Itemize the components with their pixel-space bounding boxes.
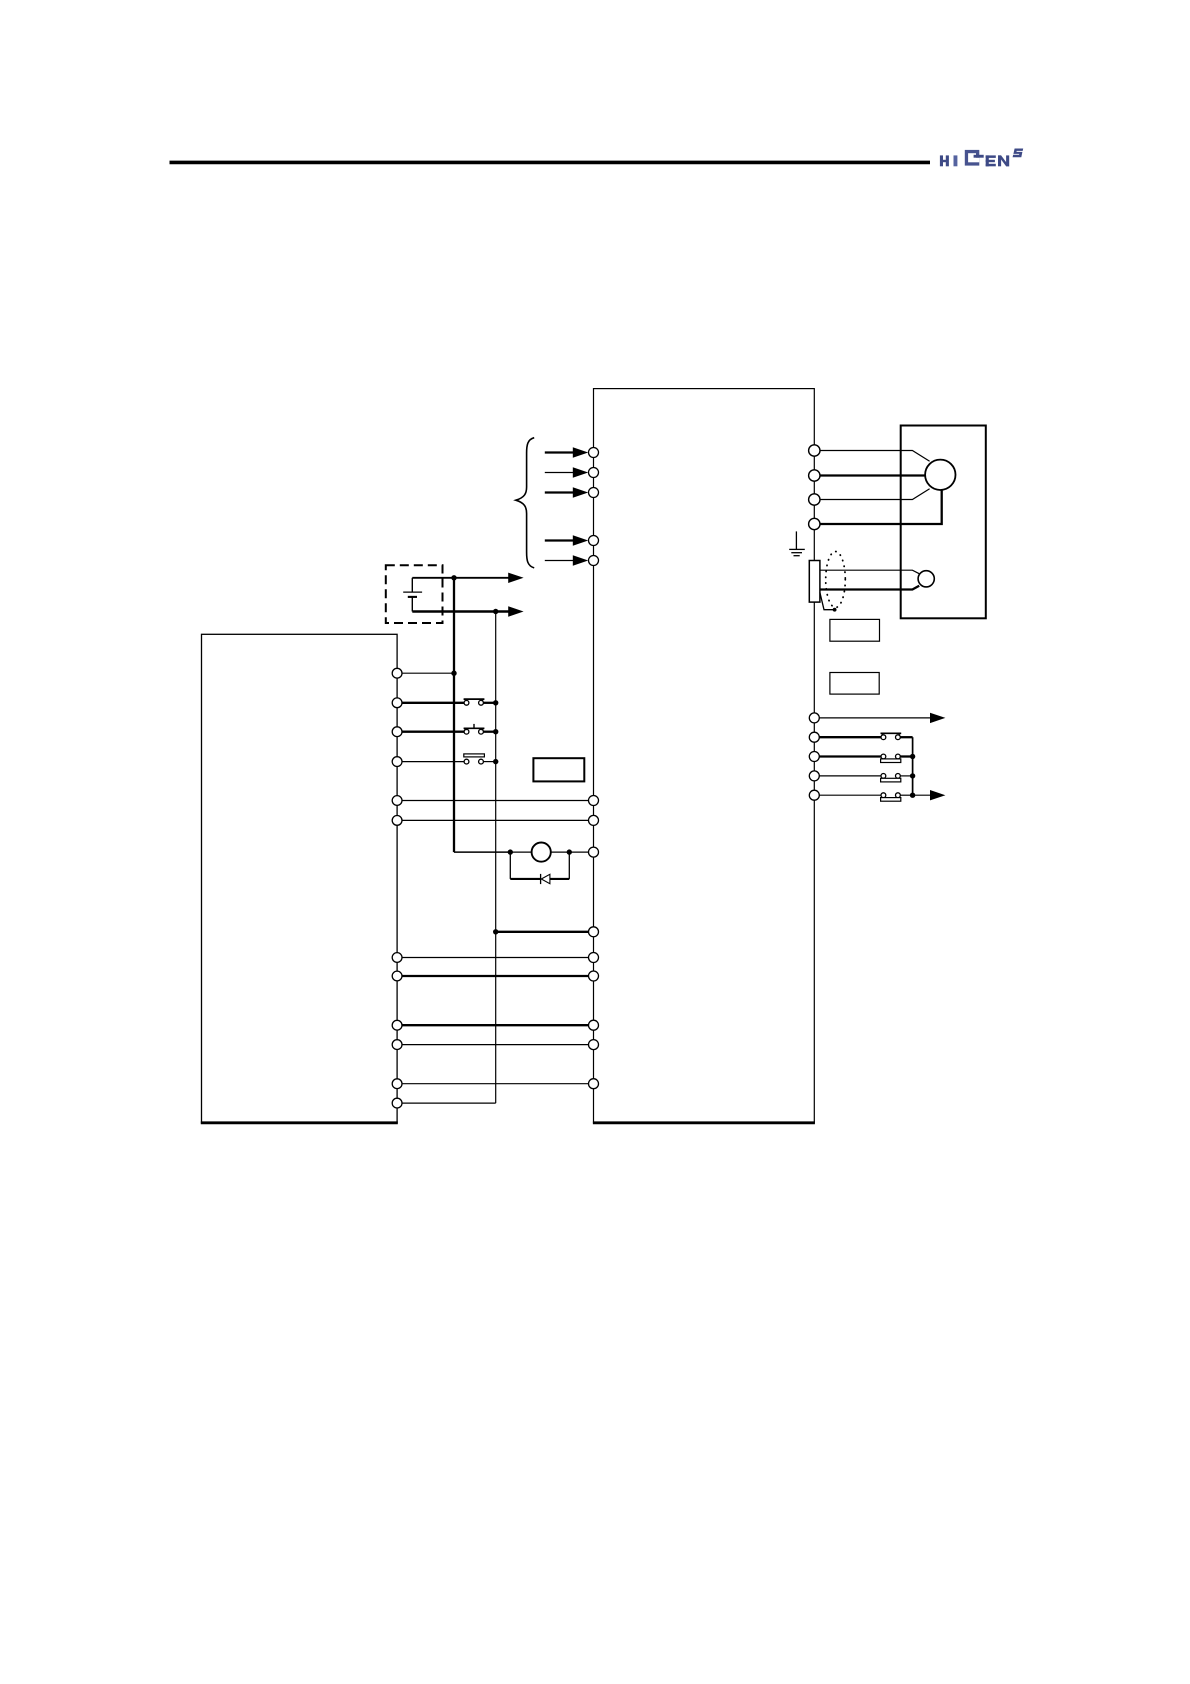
HIGEN logo letter G bbox=[965, 150, 984, 166]
drive terminal in6 bbox=[589, 796, 599, 806]
drive terminal in10 bbox=[589, 1020, 599, 1030]
connector CN2 bbox=[809, 561, 820, 603]
wire row o2 bbox=[819, 736, 912, 738]
input arrow row 1 bbox=[545, 447, 588, 457]
drive terminal in5 bbox=[589, 556, 599, 566]
shield drain dot bbox=[833, 608, 837, 612]
wire row t8 bbox=[402, 975, 589, 977]
controller terminal 6 bbox=[392, 816, 402, 826]
controller terminal 2 bbox=[392, 698, 402, 708]
HIGEN logo superscript S bbox=[1013, 149, 1024, 158]
junction coil right bbox=[567, 849, 572, 854]
wire row t12 bbox=[402, 1102, 496, 1104]
wire motor ground bbox=[820, 489, 942, 524]
NC contact row o2 bbox=[881, 733, 902, 739]
controller terminal 3 bbox=[392, 727, 402, 737]
drive power terminal V bbox=[809, 470, 820, 481]
drive terminal in2 bbox=[589, 468, 599, 478]
output arrow row o1 bbox=[819, 713, 945, 723]
controller terminal 8 bbox=[392, 971, 402, 981]
header rule bbox=[170, 161, 931, 165]
drive power terminal FG bbox=[809, 518, 820, 529]
drive terminal in12 bbox=[589, 1079, 599, 1089]
wire row t9 bbox=[402, 1024, 589, 1026]
label box 3 bbox=[533, 758, 584, 781]
wire coil row bbox=[454, 851, 589, 853]
relay coil MC bbox=[532, 843, 551, 862]
bar contact row o4 bbox=[881, 774, 901, 782]
pushbutton switch row t3 bbox=[464, 724, 485, 734]
wire row t6 bbox=[402, 819, 589, 821]
drive power terminal U bbox=[809, 445, 820, 456]
drive output terminal o1 bbox=[809, 713, 819, 723]
junction battery minus bus bbox=[493, 609, 498, 614]
wire motor phase U bbox=[820, 451, 930, 462]
flyback diode D bbox=[541, 874, 550, 884]
bar contact row o3 bbox=[881, 754, 901, 762]
drive terminal in9 bbox=[589, 971, 599, 981]
wire row t7 bbox=[402, 957, 589, 959]
controller terminal 1 bbox=[392, 668, 402, 678]
controller terminal 9 bbox=[392, 1020, 402, 1030]
HIGEN logo letter E bbox=[986, 155, 996, 166]
controller terminal 12 bbox=[392, 1098, 402, 1108]
encoder E bbox=[918, 571, 934, 587]
label box 2 bbox=[830, 673, 879, 695]
HIGEN logo letter N bbox=[998, 155, 1009, 166]
wire row o5 bbox=[819, 794, 912, 796]
label box 1 bbox=[830, 619, 880, 641]
junction t2 bus bbox=[493, 700, 498, 705]
drive output terminal o5 bbox=[809, 790, 819, 800]
junction o3 bus bbox=[910, 754, 915, 759]
drive output terminal o4 bbox=[809, 771, 819, 781]
junction o5 bus bbox=[910, 793, 915, 798]
input arrow row 3 bbox=[545, 487, 588, 497]
motor M bbox=[925, 460, 955, 490]
junction row A bus bbox=[493, 929, 498, 934]
wire row t3 bbox=[402, 731, 496, 733]
wire row t5 bbox=[402, 800, 589, 802]
wire thin vertical bus bbox=[495, 612, 497, 1104]
input arrow row 4 bbox=[545, 535, 588, 545]
controller box (host controller) bbox=[201, 634, 398, 1123]
output arrow row o5 bbox=[913, 790, 946, 800]
drive terminal in7 bbox=[589, 815, 599, 825]
controller terminal 11 bbox=[392, 1079, 402, 1089]
drive terminal in3 bbox=[589, 488, 599, 498]
drive terminal in8 bbox=[589, 953, 599, 963]
motor box bbox=[901, 426, 986, 619]
controller terminal 4 bbox=[392, 757, 402, 767]
wire row t10 bbox=[402, 1044, 589, 1046]
battery wire + arrow (plus) bbox=[412, 573, 523, 583]
wire motor phase W bbox=[820, 489, 930, 500]
battery BAT bbox=[403, 578, 422, 612]
controller terminal 10 bbox=[392, 1040, 402, 1050]
drive terminal in4 bbox=[589, 536, 599, 546]
shield ellipse bbox=[826, 552, 846, 608]
wire row o4 bbox=[819, 775, 912, 777]
output bus wire bbox=[912, 737, 914, 795]
drive terminal in1 bbox=[589, 448, 599, 458]
drive terminal in11 bbox=[589, 1040, 599, 1050]
junction t1 bus bbox=[451, 671, 456, 676]
wire row A bbox=[496, 931, 589, 933]
battery wire + arrow (minus) bbox=[412, 606, 523, 616]
wire row t11 bbox=[402, 1083, 589, 1085]
battery dashed box bbox=[386, 565, 443, 623]
input arrow row 2 bbox=[545, 467, 588, 477]
drive terminal inA bbox=[589, 927, 599, 937]
wire thick vertical bus bbox=[453, 578, 455, 852]
drive output terminal o2 bbox=[809, 732, 819, 742]
bar contact row o5 bbox=[881, 793, 901, 801]
encoder wire A bbox=[820, 570, 919, 574]
drive terminal coil bbox=[589, 847, 599, 857]
junction battery plus bus bbox=[451, 575, 456, 580]
chassis ground bbox=[789, 531, 805, 555]
wire row t1 to bus bbox=[402, 672, 454, 674]
drive output terminal o3 bbox=[809, 752, 819, 762]
controller terminal 5 bbox=[392, 796, 402, 806]
shield drain wire bbox=[820, 593, 835, 610]
junction t4 bus bbox=[493, 759, 498, 764]
drive power terminal W bbox=[809, 494, 820, 505]
NC contact switch row t2 bbox=[464, 699, 485, 705]
bar contact switch row t4 bbox=[464, 754, 485, 764]
wire row o3 bbox=[819, 755, 912, 757]
encoder wire B bbox=[820, 586, 919, 590]
HIGEN logo letter I bbox=[954, 155, 958, 166]
wire row t2 bbox=[402, 702, 496, 704]
diode loop wires bbox=[510, 852, 569, 879]
junction coil left bbox=[508, 849, 513, 854]
input arrow row 5 bbox=[545, 555, 588, 565]
junction t3 bus bbox=[493, 729, 498, 734]
controller terminal 7 bbox=[392, 953, 402, 963]
junction o4 bus bbox=[910, 773, 915, 778]
servo drive box bbox=[593, 389, 815, 1123]
brace (input group) bbox=[516, 438, 534, 568]
wire motor phase V bbox=[820, 474, 927, 476]
wire row t4 bbox=[402, 761, 496, 763]
HIGEN logo letter H bbox=[940, 155, 949, 166]
